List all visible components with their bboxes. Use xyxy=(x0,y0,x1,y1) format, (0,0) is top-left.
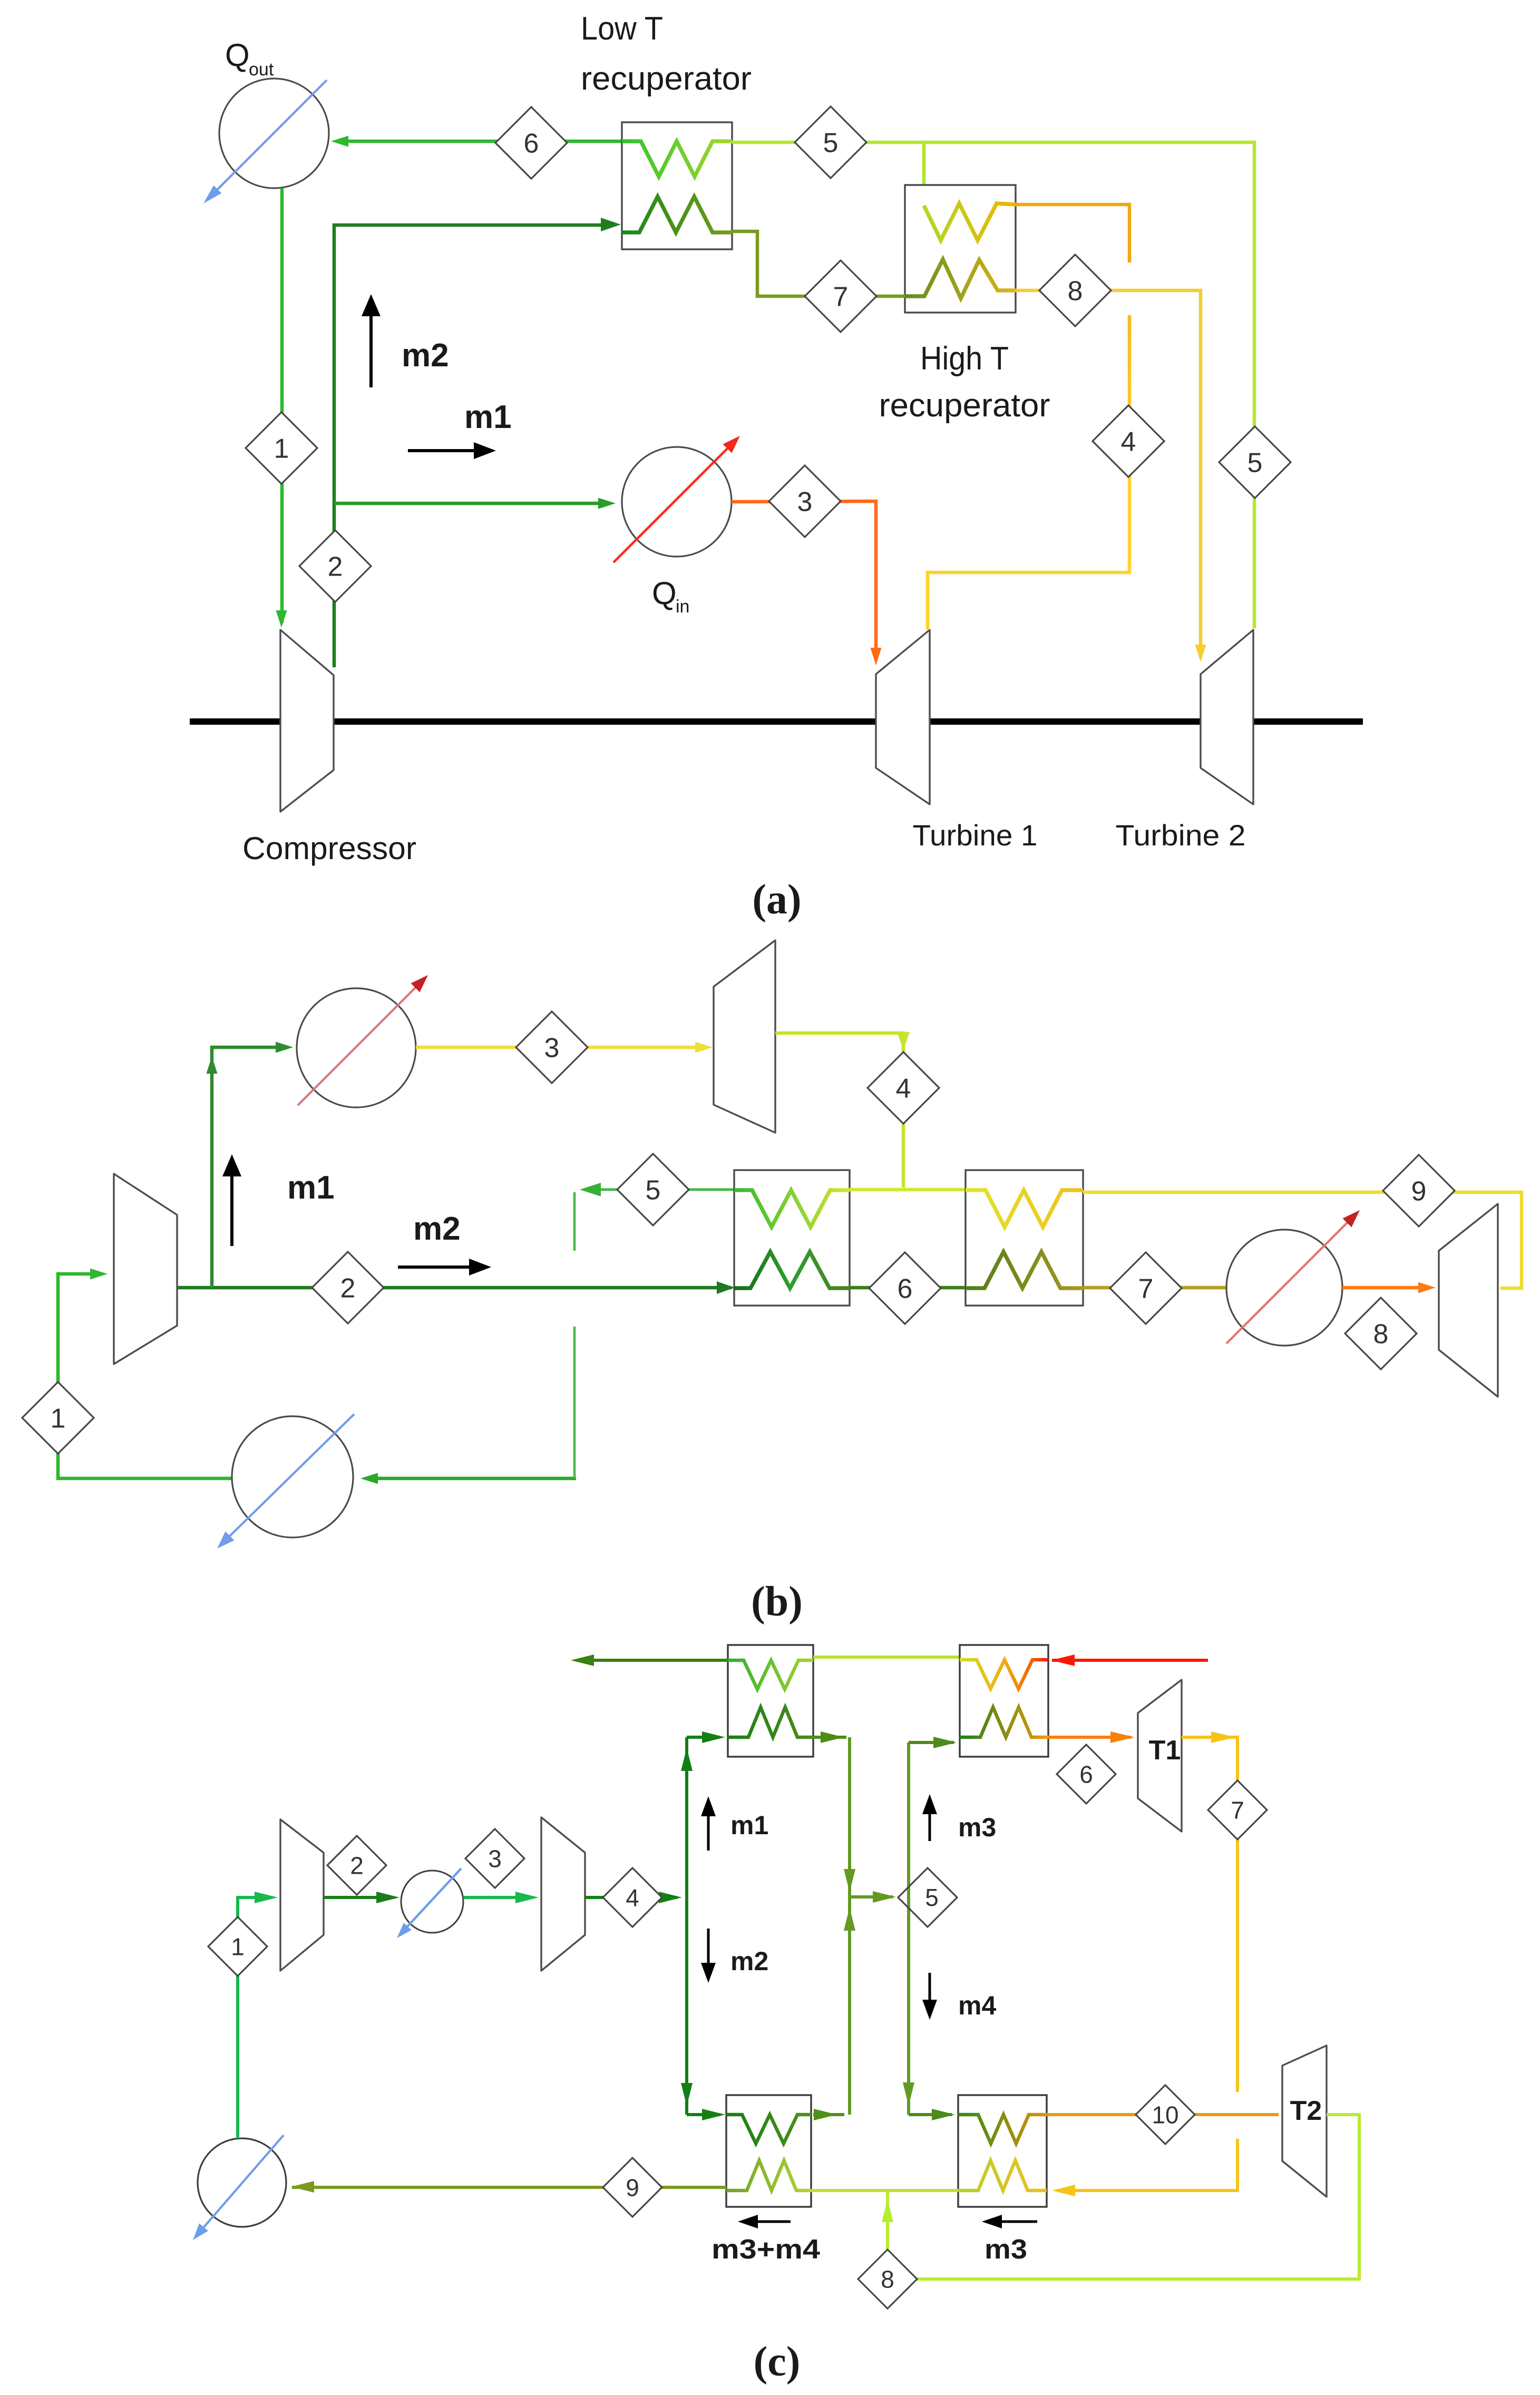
svg-text:9: 9 xyxy=(626,2174,639,2202)
node diamond 7 (a) xyxy=(805,260,876,332)
wire hot source red (c) xyxy=(1052,1659,1208,1662)
svg-text:8: 8 xyxy=(881,2266,894,2293)
low T recuperator box (a) xyxy=(622,122,732,249)
svg-text:3: 3 xyxy=(797,487,813,518)
recuperator LTR box (c) xyxy=(728,1645,813,1757)
m1 riser arrows (c) xyxy=(681,1748,693,1771)
node diamond 9 (b) xyxy=(1383,1155,1455,1226)
shaft (a) xyxy=(190,718,1363,725)
svg-text:1: 1 xyxy=(274,434,289,464)
wire cooler inlet (b) xyxy=(366,1477,576,1481)
svg-text:m2: m2 xyxy=(413,1211,461,1247)
wire stream 4 (c) xyxy=(585,1896,677,1899)
wire stream 4 (b) xyxy=(775,1033,903,1187)
node diamond 5 top (a) xyxy=(795,106,866,178)
svg-text:5: 5 xyxy=(925,1884,939,1911)
node diamond 5 (b) xyxy=(617,1154,689,1225)
wire stream 1 (c) xyxy=(238,1897,257,2138)
label m3 flow arrow xyxy=(988,2221,1037,2223)
svg-text:Compressor: Compressor xyxy=(242,831,416,866)
node diamond 9 (c) xyxy=(603,2158,662,2217)
low T recuperator hot zigzag (b) xyxy=(734,1252,850,1288)
turbine 1 (a) xyxy=(876,630,930,804)
node diamond 1 (b) xyxy=(22,1382,94,1454)
wire m3/m4 header (c) xyxy=(907,1742,910,2115)
high T recuperator hot zigzag (b) xyxy=(966,1252,1083,1288)
svg-text:2: 2 xyxy=(350,1852,364,1880)
svg-text:4: 4 xyxy=(1121,427,1136,457)
low T recuperator box (b) xyxy=(734,1170,850,1306)
LTR cold zigzag (c) xyxy=(728,1707,813,1737)
turbine T2 (c) xyxy=(1282,2046,1327,2197)
low T recuperator cold zigzag (b) xyxy=(734,1190,850,1227)
wire stream 1 (a) xyxy=(280,188,284,623)
wire stream 6 (a) xyxy=(337,140,622,143)
node diamond 3 (a) xyxy=(769,465,841,537)
low-left hot zigzag (c) xyxy=(726,2115,811,2144)
wire stream 9 (c) xyxy=(292,2186,726,2189)
cooler blue heat arrow (c) xyxy=(198,2135,284,2234)
node diamond 8 (a) xyxy=(1039,255,1111,326)
node diamond 2 (b) xyxy=(312,1252,384,1323)
m4 direction arrow (c) xyxy=(929,1973,931,2011)
svg-text:2: 2 xyxy=(328,552,343,582)
wire junction to diamond 5 (c) xyxy=(850,1895,893,1899)
turbine 2 (a) xyxy=(1201,630,1253,804)
svg-text:m3: m3 xyxy=(985,2234,1027,2265)
recuperator low-right box (c) xyxy=(958,2095,1047,2207)
svg-text:m1: m1 xyxy=(287,1170,335,1206)
node diamond 8 (b) xyxy=(1345,1298,1417,1369)
wire stream 9 (b) xyxy=(1083,1192,1522,1288)
svg-text:8: 8 xyxy=(1373,1319,1389,1350)
svg-text:Q: Q xyxy=(225,37,250,73)
recuperator HTR box (c) xyxy=(960,1645,1048,1757)
svg-text:T1: T1 xyxy=(1149,1735,1181,1766)
svg-text:10: 10 xyxy=(1152,2101,1178,2129)
wire HTR cold inlet drop (a) xyxy=(922,142,926,207)
Q_in red heat arrow xyxy=(613,443,733,562)
svg-text:4: 4 xyxy=(896,1074,911,1104)
m3 direction arrow (c) xyxy=(929,1803,931,1841)
svg-text:m4: m4 xyxy=(958,1991,996,2020)
node diamond 2 (a) xyxy=(299,530,371,602)
heater circle top (b) xyxy=(297,988,416,1107)
wire cold link lower (c) xyxy=(811,2189,958,2192)
node diamond 1 (c) xyxy=(208,1917,267,1976)
svg-text:Turbine 1: Turbine 1 xyxy=(913,819,1038,852)
svg-text:out: out xyxy=(249,60,274,80)
node diamond 4 (b) xyxy=(868,1052,939,1124)
intercooler blue arrow (c) xyxy=(402,1868,461,1932)
wire stream 8 loop (c) xyxy=(888,2115,1359,2279)
svg-text:High T: High T xyxy=(920,340,1009,377)
wire m1 riser (b) xyxy=(212,1047,287,1288)
svg-text:Low T: Low T xyxy=(581,11,663,47)
wire stream 5 (b) xyxy=(598,1189,734,1191)
compressor 2 (c) xyxy=(541,1817,585,1971)
svg-text:5: 5 xyxy=(646,1175,661,1206)
svg-text:(c): (c) xyxy=(754,2339,801,2385)
wire stream 6 (c) xyxy=(1048,1736,1131,1739)
turbine T1 (c) xyxy=(1138,1680,1182,1832)
high T recuperator hot zigzag (a) xyxy=(905,259,1016,298)
m2 direction arrow (a) xyxy=(369,316,373,387)
svg-text:Turbine 2: Turbine 2 xyxy=(1116,819,1246,852)
high T recuperator box (a) xyxy=(905,185,1016,313)
cooler blue heat arrow (b) xyxy=(223,1414,354,1542)
node diamond 10 (c) xyxy=(1136,2085,1195,2144)
cooler circle (c) xyxy=(198,2138,286,2227)
low-right cold zigzag (c) xyxy=(958,2160,1047,2190)
svg-text:2: 2 xyxy=(340,1273,356,1304)
svg-text:1: 1 xyxy=(231,1933,245,1961)
svg-text:7: 7 xyxy=(833,282,849,313)
node diamond 8 (c) xyxy=(858,2250,917,2309)
cooler Q_out (a) xyxy=(219,79,329,188)
wire LTR-HTR hot link (c) xyxy=(813,1656,960,1659)
wire stream 2 / m2 riser (a) xyxy=(334,225,605,667)
low-left cold zigzag (c) xyxy=(726,2160,811,2190)
high T recuperator box (b) xyxy=(966,1170,1083,1306)
wire stream 7 (c) xyxy=(1182,1737,1237,2092)
turbine 1 (b) xyxy=(714,940,775,1133)
node diamond 2 (c) xyxy=(327,1836,386,1895)
svg-text:8: 8 xyxy=(1068,276,1083,307)
node diamond 5 right (a) xyxy=(1219,426,1291,498)
cooler circle (b) xyxy=(232,1416,353,1537)
node diamond 3 (c) xyxy=(465,1829,524,1888)
wire stream 8 into turbine (b) xyxy=(1342,1286,1429,1290)
node diamond 6 (a) xyxy=(495,107,567,179)
svg-text:6: 6 xyxy=(524,129,539,159)
m2 direction arrow (b) xyxy=(398,1265,469,1269)
svg-text:3: 3 xyxy=(488,1845,502,1873)
wire cooled outlet to left (c) xyxy=(577,1659,728,1662)
wire stream 4 (a) xyxy=(1016,205,1129,262)
svg-text:7: 7 xyxy=(1231,1797,1244,1824)
wire cooler downcomer (b) xyxy=(573,1327,576,1478)
svg-text:(a): (a) xyxy=(752,877,801,923)
svg-text:1: 1 xyxy=(51,1404,66,1434)
intercooler circle (c) xyxy=(401,1871,463,1933)
wire stream 3 (a) xyxy=(732,501,876,659)
svg-text:recuperator: recuperator xyxy=(581,61,752,97)
svg-text:m1: m1 xyxy=(730,1810,768,1840)
wire stream 2 main (b) xyxy=(177,1286,732,1290)
low T recuperator cold zigzag (a) xyxy=(622,141,732,177)
svg-text:6: 6 xyxy=(1079,1761,1093,1788)
wire stream 2 (c) xyxy=(324,1896,394,1899)
heater Q_in (a) xyxy=(622,447,732,557)
heater red arrow right (b) xyxy=(1226,1218,1352,1343)
svg-text:3: 3 xyxy=(544,1033,560,1064)
node diamond 1 (a) xyxy=(246,412,317,484)
HTR hot zigzag (c) xyxy=(960,1660,1048,1689)
turbine 2 (b) xyxy=(1439,1204,1498,1397)
svg-text:recuperator: recuperator xyxy=(879,387,1050,424)
node diamond 4 (c) xyxy=(603,1868,662,1927)
wire stream 1 inlet (b) xyxy=(58,1274,232,1478)
compressor (b) xyxy=(114,1174,177,1364)
node diamond 4 (a) xyxy=(1093,405,1164,477)
svg-text:5: 5 xyxy=(823,128,839,159)
wire LTR cold outlet down (c) xyxy=(813,1736,846,1739)
node diamond 6 (c) xyxy=(1057,1745,1116,1804)
wire m1/m2 header (c) xyxy=(685,1737,688,1897)
m1 direction arrow (a) xyxy=(408,449,474,452)
node diamond 5 (c) xyxy=(898,1868,957,1927)
node diamond 3 (b) xyxy=(516,1011,588,1083)
high T recuperator cold zigzag (b) xyxy=(966,1190,1083,1227)
heater red arrow top (b) xyxy=(298,982,421,1105)
m1 direction arrow (c) xyxy=(707,1805,710,1851)
svg-text:T2: T2 xyxy=(1290,2096,1322,2126)
HTR cold zigzag (c) xyxy=(960,1707,1048,1737)
node diamond 6 (b) xyxy=(869,1252,941,1324)
node diamond 7 (b) xyxy=(1110,1252,1182,1324)
compressor (a) xyxy=(280,630,334,812)
wire stream 8 (a) xyxy=(1016,290,1201,657)
wire stream 3 (b) xyxy=(416,1046,706,1049)
svg-text:m3: m3 xyxy=(958,1813,996,1842)
svg-text:9: 9 xyxy=(1411,1176,1427,1207)
high T recuperator cold zigzag (a) xyxy=(924,203,1016,240)
svg-text:6: 6 xyxy=(898,1274,913,1304)
low T recuperator hot zigzag (a) xyxy=(622,197,732,232)
heater circle right (b) xyxy=(1226,1230,1342,1346)
wire cold crossover (b) xyxy=(850,1188,966,1192)
compressor 1 (c) xyxy=(280,1819,324,1971)
low-right hot zigzag (c) xyxy=(958,2115,1047,2144)
LTR hot zigzag (c) xyxy=(728,1660,813,1689)
svg-text:m2: m2 xyxy=(402,337,449,374)
node diamond 7 (c) xyxy=(1208,1780,1267,1839)
wire stream m1 branch (a) xyxy=(334,502,610,505)
wire stream 7 (b) xyxy=(1083,1286,1226,1290)
svg-text:(b): (b) xyxy=(751,1579,803,1625)
svg-text:5: 5 xyxy=(1247,448,1263,479)
wire stream 10 (c) xyxy=(1047,2113,1279,2116)
svg-text:in: in xyxy=(676,597,689,617)
wire hot crossover stream 6 (b) xyxy=(850,1286,966,1290)
svg-text:7: 7 xyxy=(1138,1274,1154,1304)
m2 direction arrow (c) xyxy=(707,1929,710,1974)
recuperator low-left box (c) xyxy=(726,2095,811,2207)
svg-text:4: 4 xyxy=(626,1884,639,1912)
wire stream 8 up (c) xyxy=(886,2190,889,2279)
Q_out blue heat arrow xyxy=(213,80,327,194)
m2 downcomer arrows (c) xyxy=(681,2083,693,2106)
svg-text:m2: m2 xyxy=(730,1946,768,1976)
wire stream 5 (a) xyxy=(732,142,1254,628)
wire stream 7 (a) xyxy=(732,231,905,296)
label m3+m4 flow arrow xyxy=(744,2221,791,2223)
svg-text:m3+m4: m3+m4 xyxy=(711,2234,820,2265)
svg-text:m1: m1 xyxy=(464,399,512,435)
m1 direction arrow (b) xyxy=(230,1176,233,1246)
svg-text:Q: Q xyxy=(652,576,677,611)
wire stream 3 (c) xyxy=(463,1896,522,1899)
